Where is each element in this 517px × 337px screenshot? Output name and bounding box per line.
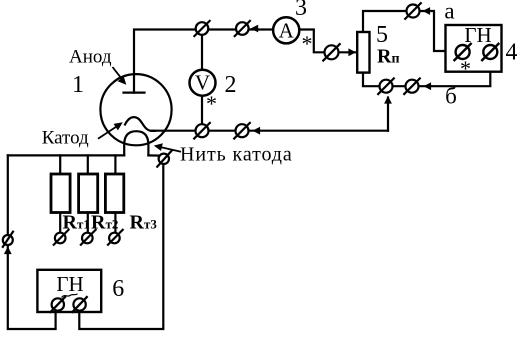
wire: RT3 bottom lead bbox=[114, 213, 116, 233]
resistor RT2 body bbox=[79, 174, 98, 213]
svg-text:*: * bbox=[460, 56, 471, 81]
arrow pointing left into T4 (terminal a wire) bbox=[423, 7, 431, 15]
arrow pointing up to T5 on riser bbox=[384, 96, 392, 104]
label leader arrow: Nit katoda to filament bbox=[154, 143, 181, 152]
svg-text:2: 2 bbox=[225, 72, 237, 98]
rheostat Rp 5 body bbox=[357, 32, 369, 73]
terminal T11 below RT3 bbox=[107, 229, 123, 246]
voltmeter U2 circle bbox=[190, 70, 216, 96]
terminal T4 on wire to terminal a bbox=[404, 2, 421, 19]
svg-text:1: 1 bbox=[72, 72, 84, 98]
terminal GN6 left bbox=[50, 296, 66, 313]
terminal T12 on left loop wire bbox=[2, 231, 13, 248]
terminal GN4 right bbox=[481, 43, 499, 61]
arrow on top row pointing left into T2 bbox=[251, 25, 259, 33]
svg-text:б: б bbox=[445, 84, 457, 109]
power source GN 6 box bbox=[37, 270, 101, 312]
terminal T5 on rheostat bottom wire (junction to cathode) bbox=[377, 78, 394, 95]
terminal GN4 left (with asterisk) bbox=[454, 43, 472, 61]
power source GN 4 box bbox=[446, 25, 502, 72]
label leader arrow: Katod to cathode bbox=[98, 122, 123, 138]
svg-text:4: 4 bbox=[506, 40, 517, 66]
wire: voltmeter branch vertical bbox=[201, 30, 203, 131]
vacuum tube 1: anode plate bar bbox=[124, 91, 145, 93]
svg-text:6: 6 bbox=[112, 276, 124, 302]
terminal T8 cathode row right bbox=[233, 122, 250, 139]
svg-text:*: * bbox=[206, 91, 217, 116]
wire: drop to resistor RT2 bbox=[87, 155, 89, 174]
svg-text:*: * bbox=[302, 31, 313, 56]
terminal T10 below RT2 bbox=[80, 229, 96, 246]
wire: drop to resistor RT3 bbox=[114, 155, 116, 174]
terminal T13 filament terminal bbox=[157, 150, 173, 168]
arrow pointing up on left loop wire bbox=[4, 247, 12, 255]
wire: filament terminal down and to GN6 right terminal bbox=[79, 164, 163, 330]
resistor RT1 body bbox=[51, 174, 70, 213]
wire: left loop down from rail to GN6 left terminal bbox=[8, 155, 56, 329]
vacuum tube 1: envelope circle bbox=[100, 74, 171, 145]
wire: RT2 bottom lead bbox=[87, 213, 89, 233]
arrow on cathode row pointing left into T8 bbox=[253, 127, 261, 135]
svg-text:а: а bbox=[444, 0, 454, 24]
terminal GN6 right bbox=[72, 296, 88, 313]
vacuum tube 1: filament arch bbox=[124, 131, 148, 155]
terminal T7 cathode row left (below voltmeter) bbox=[193, 122, 210, 139]
wire: filament left rail to resistors bbox=[8, 154, 124, 156]
svg-text:3: 3 bbox=[295, 0, 307, 21]
wire: ammeter output down to rheostat wiper bbox=[299, 30, 355, 53]
wire: rheostat top to terminal a of source GN4 bbox=[363, 11, 456, 51]
svg-text:Анод: Анод bbox=[69, 47, 112, 68]
terminal T9 below RT1 bbox=[53, 229, 69, 246]
arrow pointing left into T6 (terminal b wire) bbox=[424, 82, 432, 90]
terminal T6 on wire to terminal b bbox=[403, 78, 420, 95]
svg-text:Нить катода: Нить катода bbox=[180, 143, 293, 165]
svg-text:ГН: ГН bbox=[56, 272, 83, 296]
arrow pointing right into rheostat wiper bbox=[348, 48, 356, 56]
terminal T2 top row right bbox=[234, 20, 251, 37]
svg-text:5: 5 bbox=[376, 22, 388, 48]
terminal T3 before rheostat wiper bbox=[323, 43, 341, 61]
vacuum tube 1: cathode wavy electrode bbox=[125, 117, 155, 131]
svg-text:ГН: ГН bbox=[464, 23, 491, 47]
wire: drop to resistor RT1 bbox=[59, 155, 61, 174]
terminal T1 top row left (above voltmeter) bbox=[194, 20, 211, 37]
wire: cathode row horizontal bbox=[152, 130, 388, 132]
wire: RT1 bottom lead bbox=[59, 213, 61, 233]
wire: filament right lead to filament terminal bbox=[148, 154, 159, 156]
svg-text:A: A bbox=[279, 18, 295, 42]
resistor RT3 body bbox=[105, 174, 123, 213]
wire: rheostat bottom to terminal b of source GN4 bbox=[363, 59, 490, 87]
svg-text:Катод: Катод bbox=[42, 128, 89, 149]
GN6 AC tilde squiggle bbox=[62, 294, 78, 298]
label leader arrow: Anod to anode plate bbox=[113, 67, 127, 85]
ammeter U3 circle bbox=[273, 17, 299, 43]
wire: cathode row riser up to rheostat bottom terminal bbox=[387, 98, 389, 131]
wire: top anode row from anode lead to ammeter bbox=[134, 30, 273, 93]
